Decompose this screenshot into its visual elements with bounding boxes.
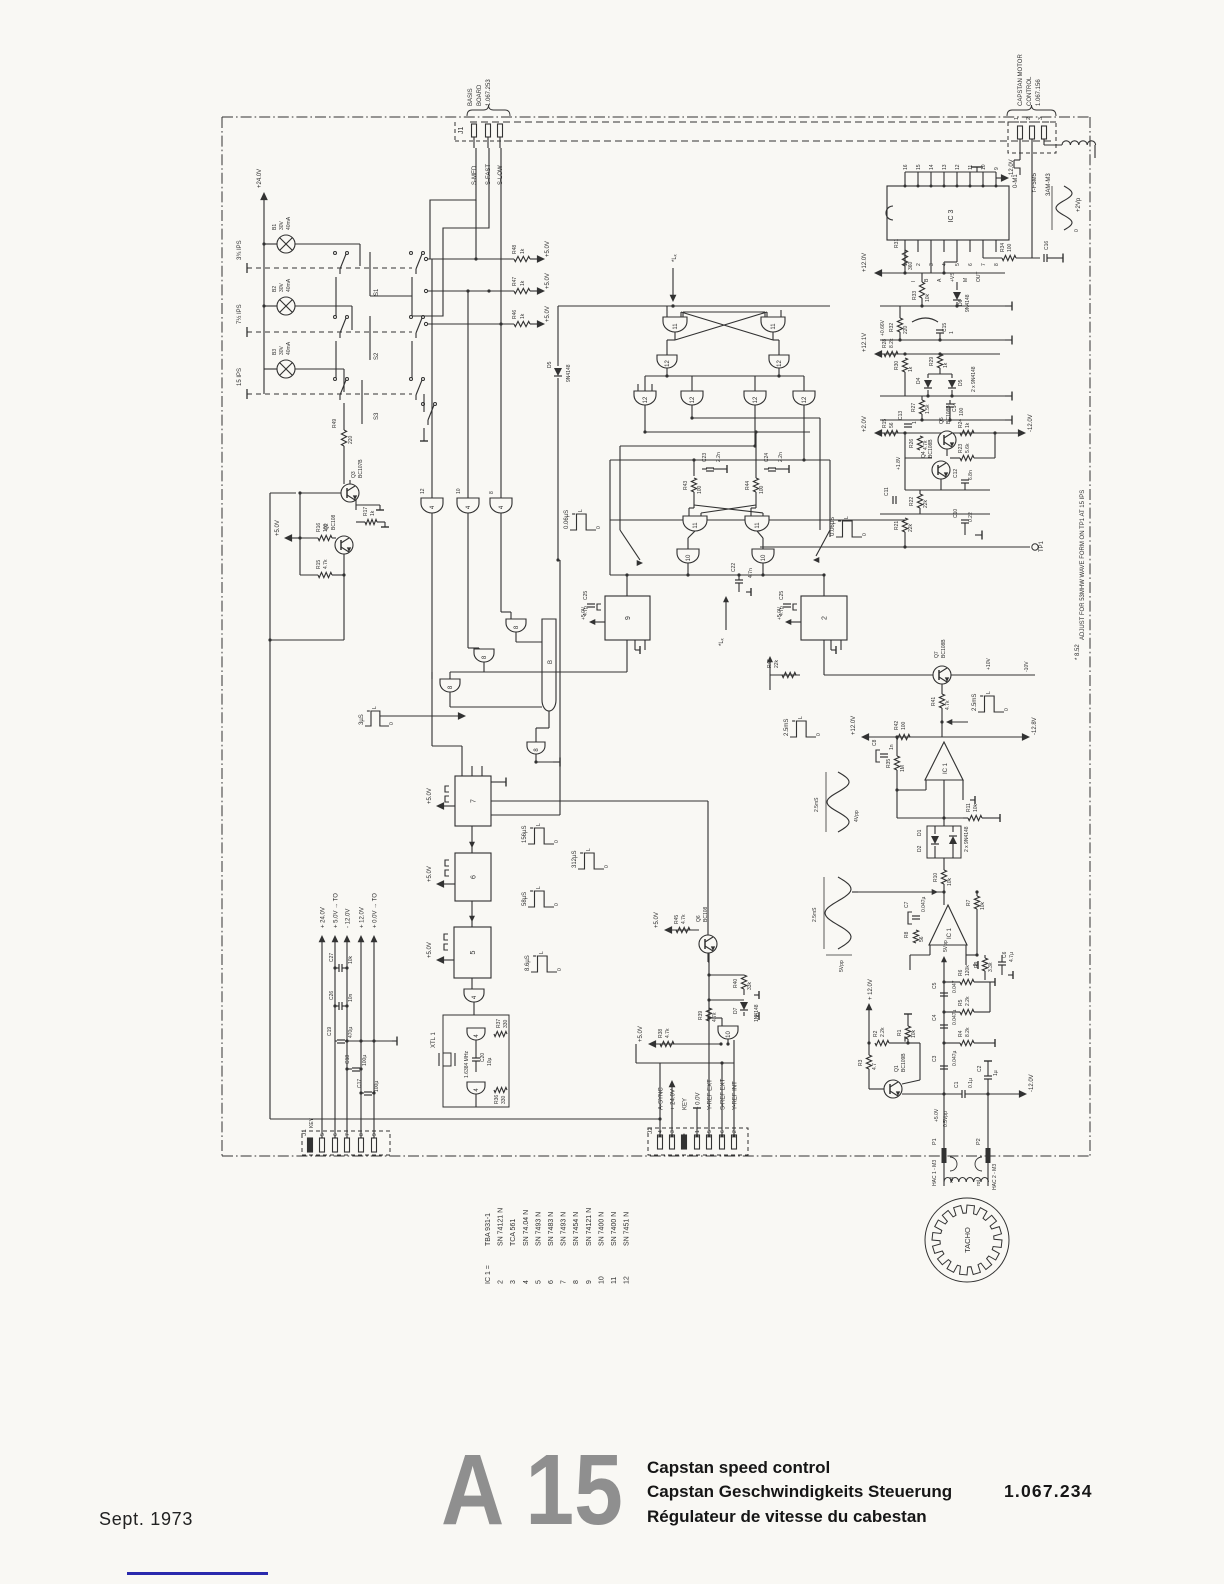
svg-text:C14: C14 [952,403,958,412]
svg-text:0: 0 [596,526,602,529]
svg-text:360: 360 [908,261,914,270]
svg-text:C5: C5 [932,982,938,989]
svg-text:9: 9 [372,1133,378,1136]
svg-text:1n: 1n [889,744,895,750]
svg-text:BC108: BC108 [703,906,709,922]
svg-text:1.5k: 1.5k [925,404,931,414]
svg-text:3: 3 [670,1130,676,1133]
svg-text:+12.0V: +12.0V [862,253,868,272]
svg-text:10: 10 [598,1276,605,1284]
svg-text:IC 1 =: IC 1 = [485,1265,492,1284]
svg-text:3: 3 [929,263,935,266]
svg-text:R46: R46 [512,310,518,319]
svg-text:R38: R38 [658,1029,664,1038]
svg-text:4.7k: 4.7k [323,559,329,569]
svg-text:IC 1: IC 1 [943,762,949,774]
svg-text:15: 15 [916,164,922,170]
svg-text:Y-REF INT: Y-REF INT [733,1081,739,1110]
svg-text:11: 11 [611,1277,618,1284]
svg-text:2 x 9N4148: 2 x 9N4148 [964,826,970,852]
svg-text:+10V: +10V [986,658,992,670]
svg-text:13: 13 [942,164,948,170]
svg-text:0: 0 [1074,229,1080,232]
svg-text:f-F5M5: f-F5M5 [1032,172,1038,192]
svg-text:2.5mS: 2.5mS [814,797,820,812]
svg-text:1.067.253: 1.067.253 [486,79,492,106]
svg-text:S3: S3 [374,412,380,420]
svg-text:10: 10 [456,488,462,494]
svg-text:12: 12 [665,360,671,367]
svg-text:1M: 1M [900,765,906,772]
svg-text:R43: R43 [683,481,689,490]
svg-text:L: L [578,509,584,512]
svg-text:6: 6 [333,1133,339,1136]
svg-text:2: 2 [916,263,922,266]
svg-text:1k: 1k [520,313,526,319]
svg-text:56: 56 [919,936,925,942]
svg-text:J1: J1 [301,1129,308,1136]
svg-text:+5.0V: +5.0V [545,273,551,289]
svg-text:10k: 10k [973,803,979,812]
svg-text:330: 330 [501,1095,507,1104]
svg-text:R5: R5 [958,999,964,1006]
svg-text:P1: P1 [932,1138,938,1145]
svg-text:TACHO: TACHO [963,1227,972,1253]
svg-text:100µ: 100µ [374,1081,380,1092]
svg-text:58µS: 58µS [522,892,528,906]
svg-text:L: L [986,691,992,694]
svg-text:R32: R32 [889,323,895,332]
svg-text:+5.0V: +5.0V [427,788,433,804]
svg-text:1: 1 [1014,117,1020,120]
svg-text:56: 56 [889,422,895,428]
svg-text:3.3k: 3.3k [988,962,994,972]
svg-text:+1.8V: +1.8V [896,456,902,470]
svg-text:1k: 1k [965,422,971,428]
svg-text:9: 9 [625,616,632,620]
svg-text:L: L [586,848,592,851]
svg-text:4.7µ: 4.7µ [1009,952,1015,962]
svg-text:+12.1V: +12.1V [862,333,868,352]
svg-text:S-REF EXT: S-REF EXT [721,1078,727,1110]
svg-text:SN 74121 N: SN 74121 N [586,1208,593,1246]
svg-text:SN 74.04 N: SN 74.04 N [523,1210,530,1246]
svg-text:B3: B3 [272,349,278,355]
svg-text:12: 12 [802,396,808,403]
svg-text:BC108B: BC108B [946,405,952,424]
svg-text:+ 24.0V: + 24.0V [321,907,327,928]
svg-text:5.6k: 5.6k [965,443,971,453]
svg-text:+ 24.0V: + 24.0V [671,1089,677,1110]
svg-text:R45: R45 [674,915,680,924]
svg-text:R21: R21 [894,521,900,530]
svg-text:BC109B: BC109B [901,1053,907,1072]
svg-text:C25: C25 [583,591,589,600]
svg-text:8: 8 [359,1133,365,1136]
svg-text:30V: 30V [279,282,285,292]
svg-text:0: 0 [816,733,822,736]
svg-text:SN 7483 N: SN 7483 N [548,1212,555,1246]
svg-text:2.2k: 2.2k [880,1027,886,1037]
svg-text:+5.0V: +5.0V [545,241,551,257]
svg-text:10k: 10k [980,901,986,910]
svg-text:-12.0V: -12.0V [1029,1074,1035,1092]
svg-text:6: 6 [720,1130,726,1133]
svg-text:+ 0.0V → TO: + 0.0V → TO [373,893,379,928]
svg-text:2.2n: 2.2n [778,452,784,462]
svg-text:9N4148: 9N4148 [965,294,971,312]
svg-text:Q3: Q3 [351,471,357,478]
svg-text:0: 0 [554,840,560,843]
svg-text:D2: D2 [917,845,923,852]
svg-text:0: 0 [1004,708,1010,711]
svg-text:0: 0 [604,865,610,868]
svg-text:+2Vp: +2Vp [1076,197,1082,212]
svg-text:R35: R35 [886,759,892,768]
svg-text:XTL 1: XTL 1 [431,1032,437,1048]
svg-text:C18: C18 [345,1055,351,1064]
svg-text:C13: C13 [898,411,904,420]
svg-text:2 x 9N4148: 2 x 9N4148 [971,366,977,392]
svg-text:C24: C24 [764,453,770,462]
svg-text:0.22: 0.22 [968,512,974,522]
svg-text:BC108B: BC108B [928,439,934,458]
svg-text:R30: R30 [894,361,900,370]
svg-text:L: L [536,886,542,889]
svg-text:BOARD: BOARD [477,84,483,106]
svg-text:SN 7454 N: SN 7454 N [573,1212,580,1246]
svg-text:+5.0V: +5.0V [275,520,281,536]
svg-text:Q7: Q7 [934,651,940,658]
svg-text:30V: 30V [279,345,285,355]
svg-text:2: 2 [498,1280,505,1284]
svg-text:+5.0V: +5.0V [427,866,433,882]
svg-text:R22: R22 [909,497,915,506]
svg-text:11: 11 [755,522,761,529]
svg-text:12: 12 [690,396,696,403]
svg-text:R6: R6 [958,969,964,976]
svg-text:*Lₓ: *Lₓ [719,638,725,646]
svg-text:C22: C22 [731,563,737,572]
svg-text:TP1: TP1 [1039,540,1045,552]
svg-text:D4: D4 [916,377,922,384]
svg-text:L: L [536,823,542,826]
svg-text:KEY: KEY [309,1117,315,1128]
svg-text:+5.0V: +5.0V [427,942,433,958]
svg-text:B: B [548,660,554,664]
svg-text:TBA 931-1: TBA 931-1 [485,1213,492,1246]
svg-text:C16: C16 [1044,241,1050,250]
svg-text:IC 1: IC 1 [947,927,953,939]
svg-text:2.2n: 2.2n [716,452,722,462]
svg-text:12: 12 [643,396,649,403]
svg-text:R9: R9 [974,961,980,968]
svg-text:+0.66V: +0.66V [880,319,886,336]
svg-text:Q2: Q2 [324,523,330,530]
svg-text:5: 5 [535,1280,542,1284]
svg-text:6: 6 [471,875,478,879]
svg-text:D6: D6 [958,299,964,306]
svg-text:40mA: 40mA [286,216,292,230]
svg-text:6: 6 [548,1280,555,1284]
svg-text:7: 7 [471,799,478,803]
svg-text:10: 10 [686,554,692,561]
svg-text:C10: C10 [953,509,959,518]
svg-text:1µ: 1µ [993,1070,999,1076]
svg-text:1.6384 MHz: 1.6384 MHz [464,1051,470,1078]
svg-text:R29: R29 [929,357,935,366]
svg-text:R17: R17 [363,507,369,516]
svg-text:SN 7493 N: SN 7493 N [535,1212,542,1246]
svg-text:22k: 22k [774,659,780,668]
svg-text:C6: C6 [1002,951,1008,958]
svg-text:5: 5 [470,950,477,954]
svg-text:470µ: 470µ [348,1027,354,1038]
svg-text:+24.0V: +24.0V [257,169,263,188]
svg-text:KEY: KEY [683,1098,689,1110]
svg-text:SN 7493 N: SN 7493 N [561,1212,568,1246]
svg-text:100: 100 [697,485,703,494]
svg-text:TCA 561: TCA 561 [510,1219,517,1246]
svg-text:4.7k: 4.7k [681,914,687,924]
svg-text:7: 7 [981,263,987,266]
svg-text:C23: C23 [702,453,708,462]
svg-text:1: 1 [949,331,955,334]
svg-text:D5: D5 [547,361,553,368]
svg-text:HAC 2 - M3: HAC 2 - M3 [992,1164,998,1190]
svg-text:312µS: 312µS [572,851,578,868]
svg-text:+5.0V: +5.0V [638,1026,644,1042]
svg-text:4: 4 [942,263,948,266]
svg-text:156µS: 156µS [522,826,528,843]
svg-text:4.7k: 4.7k [712,1012,718,1022]
svg-text:R39: R39 [698,1011,704,1020]
svg-text:0.1µ: 0.1µ [968,1078,974,1088]
svg-text:1.067.156: 1.067.156 [1036,79,1042,106]
svg-text:12: 12 [777,360,783,367]
svg-text:10n: 10n [348,993,354,1002]
svg-text:R48: R48 [512,245,518,254]
svg-text:0.5Vpp: 0.5Vpp [943,1111,949,1127]
svg-text:5: 5 [955,263,961,266]
svg-text:10k: 10k [947,877,953,886]
svg-text:+ 5.0V → TO: + 5.0V → TO [334,893,340,928]
svg-text:5: 5 [707,1130,713,1133]
svg-text:IC 3: IC 3 [948,209,955,222]
svg-text:4: 4 [658,1130,664,1133]
svg-text:100: 100 [901,721,907,730]
svg-text:J2: J2 [647,1127,654,1134]
svg-text:L: L [539,951,545,954]
svg-text:L: L [844,516,850,519]
svg-text:C1: C1 [954,1081,960,1088]
svg-text:4: 4 [523,1280,530,1284]
svg-text:R49: R49 [332,419,338,428]
svg-text:CONTROL: CONTROL [1027,76,1033,106]
svg-text:4.7k: 4.7k [665,1028,671,1038]
svg-text:HAC 1 - M3: HAC 1 - M3 [932,1160,938,1186]
svg-text:11: 11 [673,323,679,330]
svg-text:Q4: Q4 [921,451,927,458]
svg-text:33k: 33k [747,981,753,990]
svg-text:1k: 1k [370,510,376,516]
svg-text:1k: 1k [520,280,526,286]
svg-text:SN 74121 N: SN 74121 N [498,1208,505,1246]
svg-text:12: 12 [624,1276,631,1284]
svg-text:8.2k: 8.2k [889,338,895,348]
svg-text:C15: C15 [942,323,948,332]
svg-text:BASIS: BASIS [468,88,474,106]
svg-text:1: 1 [912,421,918,424]
svg-text:C8: C8 [872,739,878,746]
svg-text:* 8.52: * 8.52 [1075,644,1081,660]
svg-text:R33: R33 [912,291,918,300]
svg-text:R26: R26 [909,439,915,448]
svg-text:R16: R16 [316,523,322,532]
svg-text:1N4148: 1N4148 [754,1004,760,1022]
svg-text:R42: R42 [894,721,900,730]
svg-text:-12.0V: -12.0V [1028,414,1034,432]
svg-text:R4: R4 [958,1030,964,1037]
svg-text:C20: C20 [480,1053,486,1062]
svg-text:5: 5 [320,1133,326,1136]
svg-text:0: 0 [862,533,868,536]
svg-text:5Vpp: 5Vpp [839,960,845,972]
svg-text:C26: C26 [329,991,335,1000]
svg-text:+12.0V: +12.0V [851,716,857,735]
svg-text:40mA: 40mA [286,278,292,292]
svg-text:120k: 120k [965,965,971,976]
svg-text:C11: C11 [884,487,890,496]
svg-text:R1: R1 [897,1029,903,1036]
svg-text:100µ: 100µ [362,1055,368,1066]
svg-text:BC108: BC108 [331,514,337,530]
svg-text:+5.0V: +5.0V [777,606,783,620]
svg-text:4.7: 4.7 [872,1063,878,1070]
svg-text:22k: 22k [923,499,929,508]
svg-text:0.047µ: 0.047µ [952,1050,958,1066]
svg-text:40mA: 40mA [286,341,292,355]
svg-text:Q6: Q6 [696,915,702,922]
svg-text:12: 12 [420,488,426,494]
svg-text:1k: 1k [943,362,949,368]
svg-text:3µS: 3µS [359,714,365,725]
svg-text:D7: D7 [733,1007,739,1014]
svg-text:0.06µS: 0.06µS [830,517,836,536]
svg-text:7½ IPS: 7½ IPS [236,304,243,324]
svg-text:10k: 10k [348,955,354,964]
svg-text:9: 9 [586,1280,593,1284]
svg-text:7: 7 [345,1133,351,1136]
svg-text:C4: C4 [932,1014,938,1021]
svg-text:9N4148: 9N4148 [566,364,572,382]
svg-text:8: 8 [573,1280,580,1284]
svg-text:R31: R31 [894,239,900,248]
svg-text:100: 100 [959,407,965,416]
svg-text:I: I [911,281,917,282]
svg-text:R10: R10 [933,873,939,882]
svg-text:220: 220 [903,325,909,334]
svg-text:+5.0V: +5.0V [934,1108,940,1122]
svg-text:C2: C2 [977,1065,983,1072]
svg-text:5Vpp: 5Vpp [943,940,949,952]
svg-text:R37: R37 [496,1019,502,1028]
svg-text:2.5mS: 2.5mS [972,694,978,711]
svg-text:4Vpp: 4Vpp [854,810,860,822]
svg-text:R24: R24 [958,419,964,428]
svg-text:8: 8 [994,263,1000,266]
svg-text:6.8n: 6.8n [968,470,974,480]
svg-text:+5.0V: +5.0V [654,912,660,928]
svg-text:SN 7400 N: SN 7400 N [598,1212,605,1246]
svg-text:-12.0V: -12.0V [1009,159,1015,177]
svg-text:R2: R2 [873,1030,879,1037]
svg-text:9: 9 [994,167,1000,170]
svg-text:4.7n: 4.7n [748,568,754,578]
svg-text:B2: B2 [272,286,278,292]
svg-text:+5.0V: +5.0V [581,606,587,620]
svg-text:2: 2 [1026,117,1032,120]
svg-text:R7: R7 [966,899,972,906]
svg-text:*Lₓ: *Lₓ [672,254,678,262]
svg-text:C19: C19 [327,1027,333,1036]
svg-text:R15: R15 [316,560,322,569]
svg-text:R23: R23 [958,444,964,453]
svg-text:10: 10 [726,1031,732,1038]
svg-text:M: M [963,278,969,282]
svg-text:4.7k: 4.7k [945,700,951,710]
svg-text:7: 7 [561,1280,568,1284]
svg-text:14: 14 [929,164,935,170]
svg-text:+5.0V: +5.0V [545,306,551,322]
svg-text:R44: R44 [745,481,751,490]
svg-text:L: L [798,716,804,719]
svg-text:D1: D1 [917,829,923,836]
svg-text:100: 100 [759,485,765,494]
svg-text:S1: S1 [374,288,380,296]
svg-text:- 12.0V: - 12.0V [346,909,352,928]
svg-text:R40: R40 [733,979,739,988]
svg-text:-12.8V: -12.8V [1032,717,1038,735]
svg-text:2: 2 [822,616,829,620]
svg-text:0: 0 [554,903,560,906]
svg-text:P2: P2 [976,1138,982,1145]
svg-text:12: 12 [955,164,961,170]
svg-text:J1: J1 [458,127,465,135]
svg-text:R3: R3 [858,1059,864,1066]
svg-text:C27: C27 [329,953,335,962]
svg-text:12: 12 [753,396,759,403]
svg-text:8.2k: 8.2k [965,1027,971,1037]
svg-text:+ 12.0V: + 12.0V [360,907,366,928]
svg-text:15 IPS: 15 IPS [237,368,243,386]
svg-text:SN 7451 N: SN 7451 N [624,1212,631,1246]
svg-text:1: 1 [695,1130,701,1133]
svg-text:R27: R27 [911,403,917,412]
svg-text:SN 7400 N: SN 7400 N [611,1212,618,1246]
svg-text:10k: 10k [925,293,931,302]
svg-text:C12: C12 [953,469,959,478]
svg-text:-10V: -10V [1024,661,1030,672]
svg-text:1k: 1k [520,248,526,254]
svg-text:16: 16 [903,164,909,170]
svg-text:330: 330 [503,1019,509,1028]
svg-text:3: 3 [510,1280,517,1284]
svg-text:D5: D5 [958,379,964,386]
svg-text:10µ: 10µ [487,1057,493,1066]
svg-text:R36: R36 [494,1095,500,1104]
svg-text:2: 2 [732,1130,738,1133]
